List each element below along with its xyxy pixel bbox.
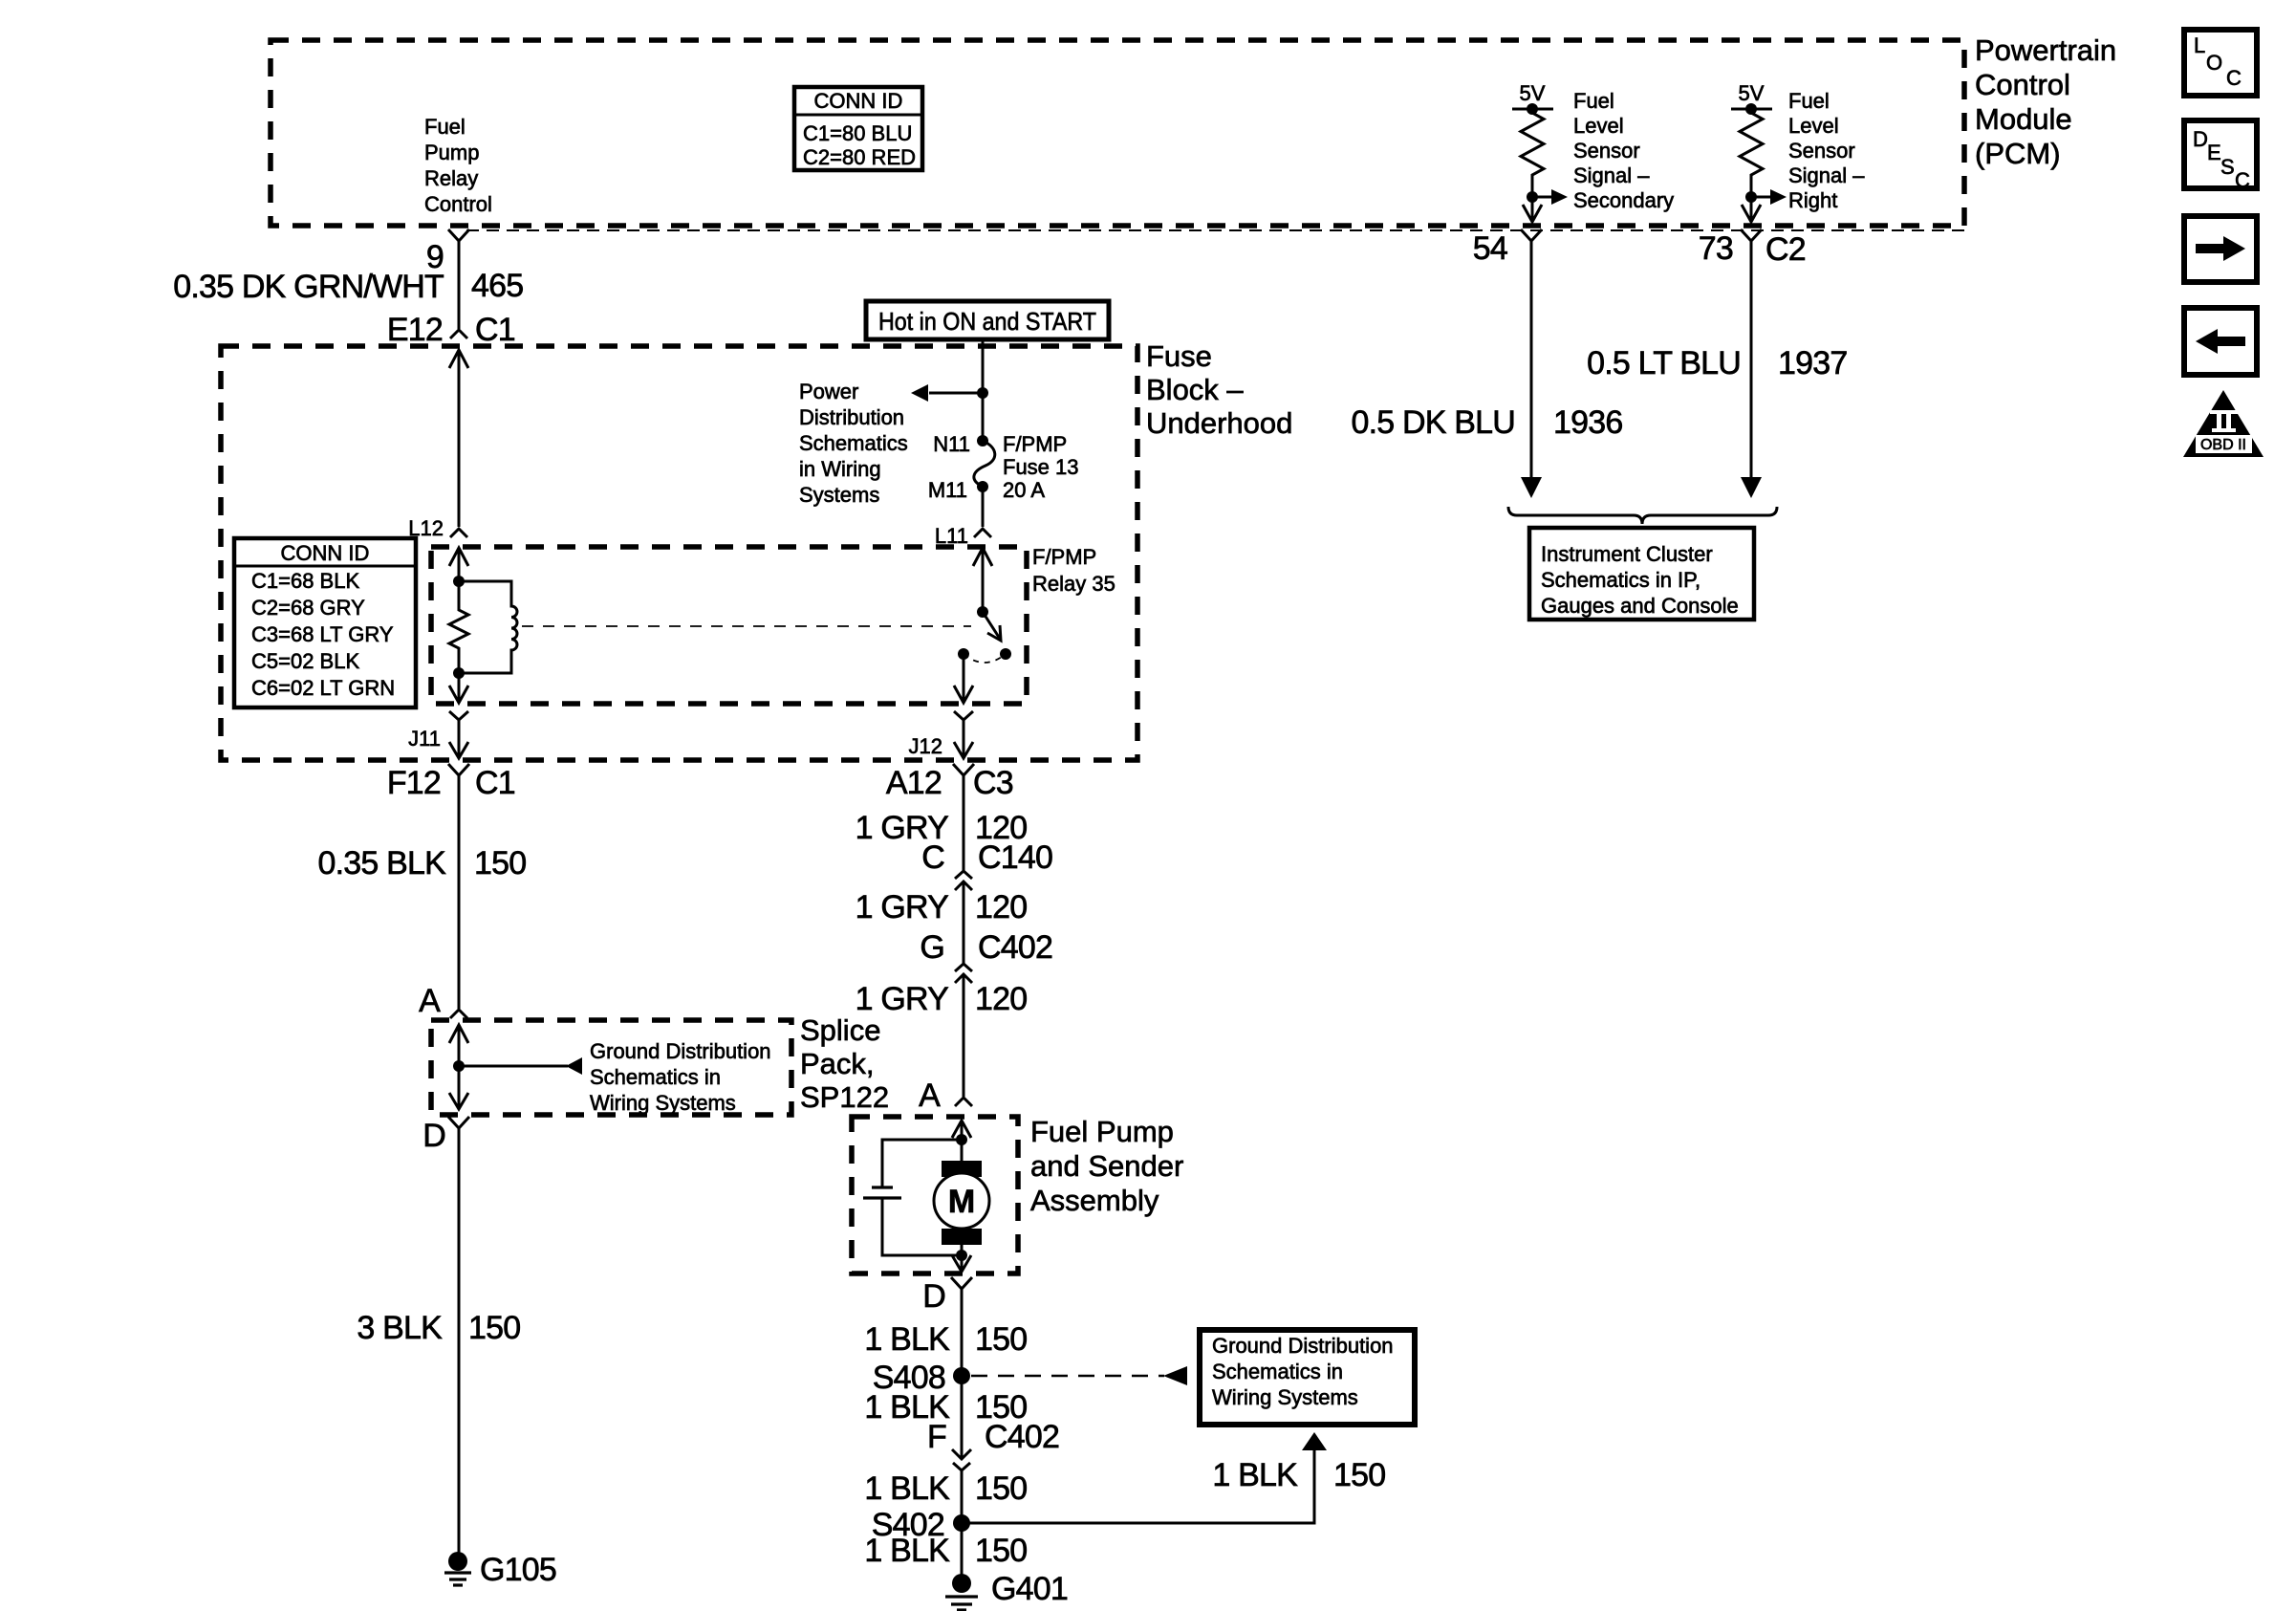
icon LOC	[2184, 30, 2257, 96]
wire 120 GRY mid	[963, 882, 965, 964]
relay coil exit arrow	[449, 673, 468, 703]
svg-text:D: D	[422, 1118, 445, 1154]
svg-text:C2=68 GRY: C2=68 GRY	[251, 596, 365, 620]
hot feed wire from fuse box top	[982, 339, 985, 441]
relay switch arm	[983, 612, 1001, 641]
svg-text:CONN ID: CONN ID	[281, 541, 370, 565]
relay coil bottom junction dot	[453, 667, 465, 679]
svg-text:Control: Control	[1975, 68, 2070, 101]
ground distribution ref arrow (splice)	[459, 1057, 582, 1075]
svg-text:Assembly: Assembly	[1030, 1184, 1159, 1217]
relay contact dot right	[1000, 648, 1011, 660]
relay coil-side entry arrow	[449, 548, 468, 581]
relay actuation link (thin dashed)	[522, 625, 971, 627]
svg-text:120: 120	[975, 889, 1027, 925]
svg-text:C3: C3	[973, 765, 1013, 801]
relay coil branch	[459, 581, 517, 673]
connector Y below splice pack	[448, 1117, 469, 1143]
pin function label: Fuel Pump Relay Control	[424, 115, 492, 216]
svg-text:C: C	[921, 839, 944, 876]
svg-text:C402: C402	[985, 1419, 1059, 1455]
connector J11 pin symbol	[449, 711, 468, 737]
chevron into splice pack	[450, 1010, 467, 1018]
svg-text:Systems: Systems	[799, 483, 879, 507]
connector Y at pin 9	[448, 229, 469, 252]
svg-text:Signal –: Signal –	[1788, 163, 1865, 187]
svg-text:Powertrain: Powertrain	[1975, 33, 2116, 67]
svg-text:C402: C402	[978, 929, 1052, 966]
5V supply 1	[1512, 81, 1553, 115]
svg-text:O: O	[2206, 51, 2222, 75]
svg-text:E12: E12	[387, 312, 443, 348]
svg-text:Fuse 13: Fuse 13	[1003, 455, 1079, 479]
svg-text:SP122: SP122	[800, 1080, 889, 1114]
connector chevron into fuse block	[450, 330, 467, 338]
splice junction dot	[453, 1060, 465, 1072]
signal ref arrow right 2	[1751, 189, 1787, 205]
inline connector C402 symbol (upper)	[955, 964, 972, 983]
relay switch pivot dot	[977, 606, 988, 618]
connector Y below fuse block at F12	[448, 764, 469, 791]
svg-text:Pump: Pump	[424, 141, 479, 164]
signal ref arrow right 1	[1532, 189, 1568, 205]
svg-text:A: A	[919, 1078, 941, 1114]
capacitor C (noise suppression)	[863, 1187, 901, 1198]
label: Fuel Level Sensor Signal - Right	[1788, 89, 1865, 212]
branch wire from S402 to ground distribution	[962, 1432, 1327, 1523]
svg-text:J12: J12	[909, 734, 942, 758]
fuel pump assembly name label	[1030, 1115, 1183, 1217]
svg-text:D: D	[2193, 127, 2208, 151]
icon OBD II triangle	[2183, 390, 2264, 457]
svg-text:Fuel: Fuel	[1788, 89, 1830, 113]
Ground Distribution reference box	[1200, 1330, 1415, 1425]
svg-text:Secondary: Secondary	[1573, 188, 1674, 212]
relay switch input arrow	[973, 548, 992, 612]
svg-text:3 BLK: 3 BLK	[357, 1310, 443, 1346]
chevron into fuel pump assembly	[955, 1098, 972, 1106]
svg-text:Right: Right	[1788, 188, 1837, 212]
svg-text:Power: Power	[799, 380, 858, 403]
wire 150 BLK to S402	[961, 1472, 964, 1523]
relay contact travel arc (dashed)	[964, 654, 1006, 663]
fuse terminal N11 dot	[977, 435, 988, 446]
svg-text:1 GRY: 1 GRY	[856, 981, 949, 1017]
svg-text:F12: F12	[387, 765, 441, 801]
PCM module box (Powertrain Control Module)	[271, 40, 1964, 226]
J11 exit arrow through fuse block edge	[449, 737, 468, 758]
ground distribution ref dashed line from S408	[971, 1366, 1187, 1385]
svg-text:CONN ID: CONN ID	[814, 89, 903, 113]
wire 120 GRY from A12	[963, 791, 965, 872]
svg-text:Wiring Systems: Wiring Systems	[1212, 1385, 1358, 1409]
node junction dot 1	[1527, 191, 1538, 203]
resistor (fuel level sensor pull-up, right)	[1740, 109, 1763, 197]
relay contact dot left	[958, 648, 969, 660]
connector Y at pin 73	[1741, 229, 1762, 252]
fuel pump top junction dot	[956, 1134, 967, 1145]
svg-text:Distribution: Distribution	[799, 405, 904, 429]
svg-text:C140: C140	[978, 839, 1052, 876]
power distribution ref arrow	[911, 384, 983, 402]
svg-text:73: 73	[1699, 230, 1733, 267]
wire 150 BLK to S408	[961, 1302, 964, 1457]
CONN ID table (fuse block connectors)	[234, 538, 416, 708]
wire: sensor signal to pin 73 with down arrow	[1742, 197, 1761, 222]
svg-text:54: 54	[1473, 230, 1507, 267]
entry arrow of wire 465 into fuse block	[449, 350, 468, 527]
splice pack entry arrow	[449, 1025, 468, 1066]
wire 465 DK GRN/WHT from pin 9	[458, 252, 461, 329]
junction dot hot feed	[977, 387, 988, 399]
label: Fuel Level Sensor Signal - Secondary	[1573, 89, 1674, 212]
splice pack exit arrow	[449, 1066, 468, 1109]
svg-text:1 BLK: 1 BLK	[864, 1470, 950, 1507]
svg-text:F: F	[927, 1419, 946, 1455]
connector Y below fuel pump	[951, 1277, 972, 1302]
svg-text:OBD II: OBD II	[2200, 437, 2246, 453]
svg-text:465: 465	[471, 268, 523, 304]
svg-text:Fuel: Fuel	[424, 115, 466, 139]
CONN ID table (PCM connectors)	[794, 87, 922, 170]
svg-text:Sensor: Sensor	[1573, 139, 1640, 163]
wire: sensor signal to pin 54 with down arrow	[1523, 197, 1542, 222]
splice S402 dot	[953, 1514, 970, 1532]
J12 exit arrow through fuse block edge	[954, 737, 973, 758]
svg-text:C2: C2	[1765, 231, 1806, 268]
svg-text:G105: G105	[480, 1552, 556, 1588]
svg-text:5V: 5V	[1520, 81, 1546, 105]
svg-text:F/PMP: F/PMP	[1032, 545, 1096, 569]
icon arrow right	[2184, 216, 2257, 282]
svg-text:Level: Level	[1788, 114, 1839, 138]
5V supply 2	[1731, 81, 1772, 115]
Splice Pack SP122 box (dashed)	[431, 1020, 791, 1115]
svg-text:C1: C1	[475, 765, 515, 801]
fuse terminal M11 dot	[977, 481, 988, 492]
PCM connector face line (thin dashed)	[466, 229, 1964, 231]
inline connector C402 symbol (lower)	[952, 1449, 971, 1477]
svg-text:J11: J11	[408, 727, 441, 751]
relay coil top junction dot	[453, 576, 465, 587]
svg-text:E: E	[2207, 141, 2221, 164]
connector Y at pin 54	[1521, 229, 1542, 252]
svg-text:1 BLK: 1 BLK	[864, 1321, 950, 1358]
svg-text:Fuel Pump: Fuel Pump	[1030, 1115, 1174, 1148]
svg-text:120: 120	[975, 981, 1027, 1017]
inline connector C140 symbol	[955, 871, 972, 890]
node junction dot 2	[1745, 191, 1757, 203]
svg-text:M11: M11	[928, 478, 967, 502]
svg-text:Gauges and Console: Gauges and Console	[1541, 594, 1739, 618]
ground G105 symbol	[444, 1552, 471, 1585]
svg-text:C: C	[2235, 168, 2250, 192]
svg-text:G401: G401	[991, 1571, 1068, 1607]
label: Power Distribution Schematics in Wiring Systems	[799, 380, 908, 507]
svg-text:150: 150	[975, 1533, 1027, 1569]
svg-text:D: D	[922, 1278, 945, 1315]
wire 1936 DK BLU to instrument cluster	[1521, 252, 1542, 498]
svg-text:Hot in ON and START: Hot in ON and START	[878, 307, 1096, 336]
fuse name label F/PMP Fuse 13 20 A	[1003, 432, 1079, 502]
fuel pump exit arrow	[952, 1255, 971, 1272]
relay name label	[1032, 545, 1116, 596]
svg-text:Pack,: Pack,	[800, 1047, 875, 1080]
svg-text:N11: N11	[933, 432, 970, 456]
wire fuse to relay	[982, 487, 985, 527]
svg-text:Relay: Relay	[424, 166, 478, 190]
icon DESC	[2184, 120, 2257, 192]
svg-text:Level: Level	[1573, 114, 1624, 138]
svg-text:Schematics in IP,: Schematics in IP,	[1541, 568, 1700, 592]
svg-text:Ground Distribution: Ground Distribution	[590, 1039, 771, 1063]
fuel pump motor M	[934, 1140, 989, 1255]
svg-text:Underhood: Underhood	[1146, 406, 1292, 440]
svg-text:in Wiring: in Wiring	[799, 457, 881, 481]
svg-text:1 GRY: 1 GRY	[856, 889, 949, 925]
svg-text:Fuse: Fuse	[1146, 339, 1212, 373]
svg-text:C: C	[2226, 66, 2242, 90]
svg-text:Control: Control	[424, 192, 492, 216]
svg-text:1 BLK: 1 BLK	[864, 1533, 950, 1569]
Instrument Cluster reference box	[1529, 528, 1754, 620]
svg-text:Relay 35: Relay 35	[1032, 572, 1116, 596]
wire 150 BLK from F12	[458, 791, 461, 1009]
label: Ground Distribution Schematics in Wiring Systems (splice)	[590, 1039, 771, 1115]
svg-text:0.5 LT BLU: 0.5 LT BLU	[1587, 345, 1741, 381]
svg-text:C5=02 BLK: C5=02 BLK	[251, 649, 359, 673]
svg-text:Sensor: Sensor	[1788, 139, 1855, 163]
capacitor branch wiring	[882, 1140, 962, 1255]
wire 150 BLK to G401	[961, 1523, 964, 1575]
svg-text:0.35 BLK: 0.35 BLK	[318, 845, 447, 882]
svg-text:Fuel: Fuel	[1573, 89, 1614, 113]
svg-text:C6=02 LT GRN: C6=02 LT GRN	[251, 676, 395, 700]
svg-text:C1=80 BLU: C1=80 BLU	[803, 121, 912, 145]
fuel pump entry arrow	[952, 1121, 971, 1140]
splice pack name label	[800, 1013, 889, 1114]
svg-text:C1=68 BLK: C1=68 BLK	[251, 569, 359, 593]
svg-text:C2=80 RED: C2=80 RED	[803, 145, 916, 169]
svg-text:(PCM): (PCM)	[1975, 137, 2061, 170]
svg-text:150: 150	[474, 845, 526, 882]
svg-text:20 A: 20 A	[1003, 478, 1045, 502]
svg-text:F/PMP: F/PMP	[1003, 432, 1067, 456]
connector J12 pin symbol	[954, 711, 973, 737]
svg-text:and Sender: and Sender	[1030, 1149, 1183, 1183]
Fuse Block box (dashed)	[221, 346, 1137, 760]
svg-text:A12: A12	[886, 765, 942, 801]
Hot in ON and START box	[866, 301, 1109, 339]
svg-text:Schematics in: Schematics in	[590, 1065, 721, 1089]
svg-text:0.5 DK BLU: 0.5 DK BLU	[1351, 404, 1515, 441]
chevron into relay	[450, 529, 467, 537]
wire 120 GRY lower	[963, 974, 965, 1097]
svg-text:G: G	[920, 929, 944, 966]
svg-text:1 BLK: 1 BLK	[1212, 1457, 1298, 1493]
splice S408 dot	[953, 1367, 970, 1384]
svg-text:150: 150	[975, 1470, 1027, 1507]
svg-text:1937: 1937	[1778, 345, 1847, 381]
connector Y below fuse block at A12	[953, 764, 974, 791]
svg-text:150: 150	[468, 1310, 520, 1346]
brace grouping both wires	[1508, 507, 1777, 524]
wire 1937 LT BLU to instrument cluster	[1741, 252, 1762, 498]
ground G401 symbol	[945, 1574, 978, 1610]
fuel pump bottom junction dot	[956, 1250, 967, 1261]
svg-text:1936: 1936	[1553, 404, 1622, 441]
svg-text:Schematics: Schematics	[799, 431, 908, 455]
F/PMP Relay 35 box (dashed)	[431, 547, 1027, 704]
svg-text:Instrument Cluster: Instrument Cluster	[1541, 542, 1713, 566]
svg-text:C1: C1	[475, 312, 515, 348]
svg-text:A: A	[419, 983, 441, 1019]
svg-text:Signal –: Signal –	[1573, 163, 1650, 187]
svg-text:Ground Distribution: Ground Distribution	[1212, 1334, 1394, 1358]
svg-text:S: S	[2220, 155, 2235, 179]
fuse 13 element (S curve)	[974, 441, 995, 487]
icon arrow left	[2184, 308, 2257, 375]
svg-text:0.35 DK GRN/WHT: 0.35 DK GRN/WHT	[173, 269, 444, 305]
relay switch exit arrow	[954, 654, 973, 703]
svg-text:150: 150	[975, 1321, 1027, 1358]
svg-text:Schematics in: Schematics in	[1212, 1360, 1343, 1383]
svg-text:Wiring Systems: Wiring Systems	[590, 1091, 736, 1115]
svg-text:L: L	[2194, 33, 2205, 57]
svg-text:5V: 5V	[1739, 81, 1765, 105]
PCM name label	[1975, 33, 2116, 170]
relay resistor (parallel with coil)	[449, 581, 468, 673]
svg-text:Splice: Splice	[800, 1013, 880, 1047]
svg-text:M: M	[948, 1184, 975, 1220]
Fuel Pump and Sender Assembly box (dashed)	[852, 1117, 1018, 1274]
svg-text:C3=68 LT GRY: C3=68 LT GRY	[251, 622, 394, 646]
resistor (fuel level sensor pull-up, left)	[1521, 109, 1544, 197]
svg-text:150: 150	[1333, 1457, 1385, 1493]
wire 150 BLK (3 ga) to G105	[458, 1143, 461, 1553]
svg-text:Module: Module	[1975, 102, 2072, 136]
chevron into relay (right)	[974, 529, 991, 537]
Fuse Block name label	[1146, 339, 1292, 440]
svg-text:Block –: Block –	[1146, 373, 1244, 406]
